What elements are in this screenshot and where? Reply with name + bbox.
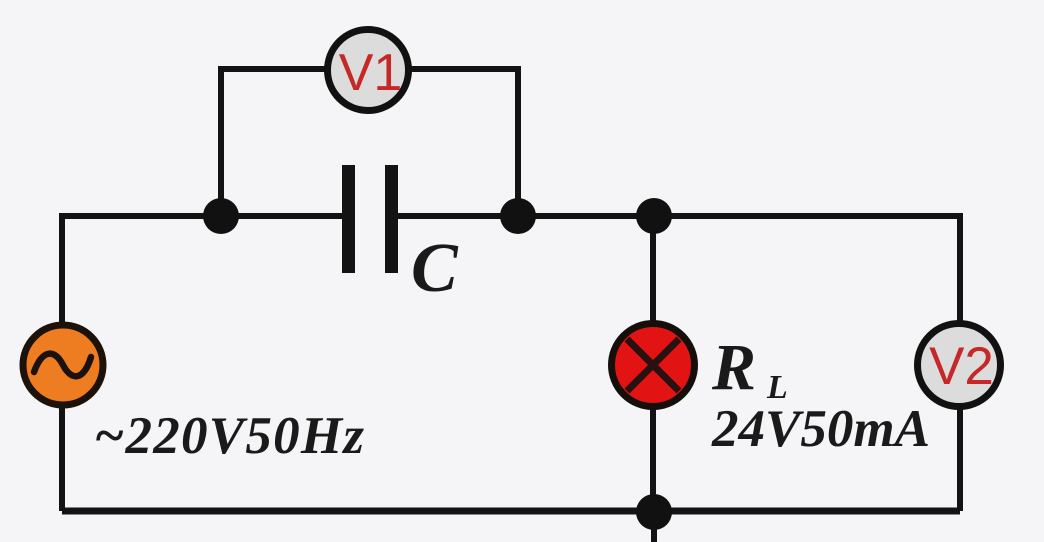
svg-text:~220V50Hz: ~220V50Hz	[94, 407, 364, 465]
node: junction bottom	[636, 494, 672, 530]
node: junction top-lamp	[636, 198, 672, 234]
capacitor C	[342, 165, 398, 273]
svg-text:24V50mA: 24V50mA	[711, 400, 930, 458]
wire: bottom stub below junction	[651, 512, 657, 542]
wire: top bus left segment (source to capacitor left plate)	[62, 213, 349, 219]
wire: lamp branch	[650, 216, 656, 511]
svg-text:V1: V1	[339, 44, 403, 102]
svg-text:V2: V2	[929, 337, 994, 396]
node: junction top-middle	[500, 198, 536, 234]
wire: top bus right segment (capacitor right plate to right branch)	[390, 213, 960, 219]
wire: bottom bus	[62, 508, 960, 515]
wire: V1 voltmeter loop	[221, 69, 518, 216]
voltmeter V2	[918, 324, 1001, 407]
wire: right branch with V2	[957, 213, 963, 511]
node: junction top-left	[203, 198, 239, 234]
voltmeter V1	[328, 30, 409, 111]
wire: left branch with AC source	[59, 213, 65, 511]
svg-text:C: C	[411, 230, 459, 307]
lamp RL	[612, 324, 695, 407]
AC source	[23, 325, 103, 405]
